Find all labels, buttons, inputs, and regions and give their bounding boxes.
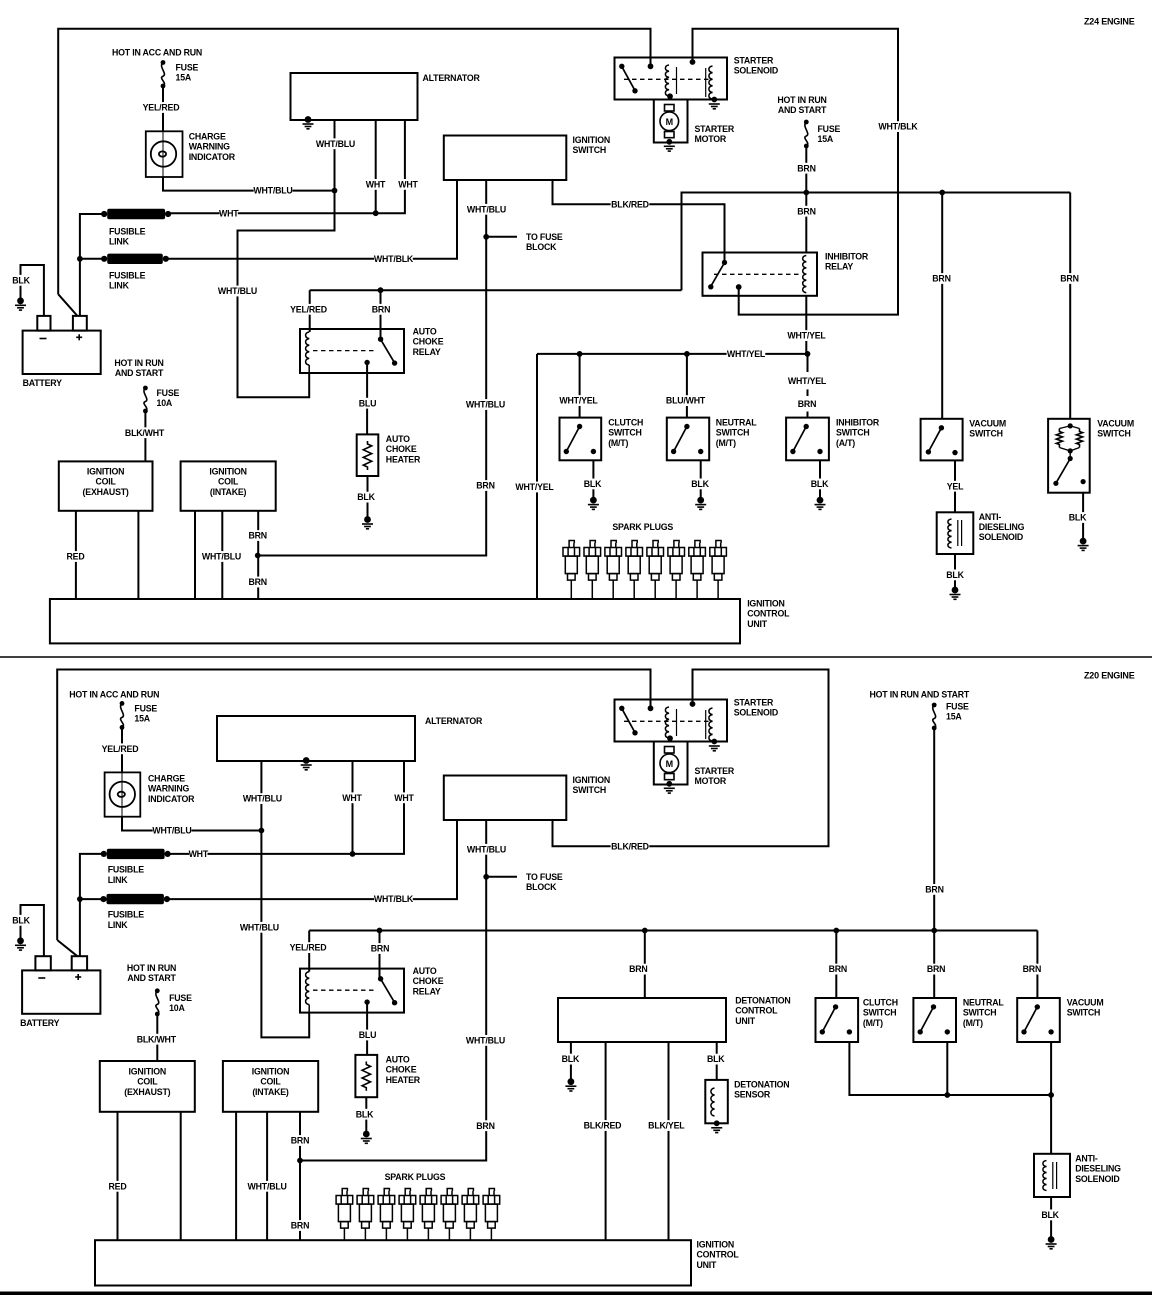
wire BLK anti-dieseling to ground Z20 bbox=[1050, 1197, 1052, 1240]
label BLU bbox=[356, 398, 380, 409]
vacuum switch 2 resistors bbox=[1056, 429, 1062, 448]
solenoid hold-in coil bbox=[709, 66, 713, 99]
pin detonation sensor ground bbox=[714, 1120, 720, 1126]
svg-text:Z24 ENGINE: Z24 ENGINE bbox=[1084, 17, 1135, 27]
wire coil intake pin 1 to ICU Z20 bbox=[235, 1112, 237, 1240]
wire neutral switch output Z20 bbox=[946, 1042, 948, 1095]
battery Z20 bbox=[22, 956, 100, 1014]
anti-dieseling core lines bbox=[957, 520, 959, 546]
wire stub to fuse block bbox=[486, 236, 517, 238]
svg-text:WHT: WHT bbox=[342, 793, 362, 803]
ground solenoid coil bbox=[709, 104, 720, 109]
label BLK bbox=[558, 1054, 582, 1065]
spark plug Z20 7 bbox=[462, 1189, 479, 1241]
label WHT bbox=[394, 792, 414, 803]
svg-text:BLK: BLK bbox=[584, 479, 602, 489]
spark plug Z20 2 bbox=[357, 1189, 374, 1241]
ignition switch box bbox=[444, 136, 567, 181]
spark plug 1 bbox=[563, 541, 580, 600]
svg-text:BRN: BRN bbox=[1060, 274, 1078, 284]
svg-text:BLK: BLK bbox=[12, 915, 30, 925]
starter motor frame Z20 bbox=[654, 742, 688, 785]
svg-text:BLU: BLU bbox=[359, 1030, 376, 1040]
svg-text:WHT/YEL: WHT/YEL bbox=[788, 376, 827, 386]
svg-text:RED: RED bbox=[109, 1181, 127, 1191]
label BLK/WHT bbox=[137, 1034, 177, 1045]
ground detonation sensor bbox=[711, 1128, 722, 1133]
spark plug 7 bbox=[689, 541, 706, 600]
svg-text:BLK: BLK bbox=[946, 570, 964, 580]
svg-text:WHT/BLK: WHT/BLK bbox=[878, 122, 918, 132]
wire fuse to indicator bbox=[162, 86, 164, 131]
fuse F6 10A bbox=[155, 988, 160, 1016]
wire WHT alternator pin 2 Z20 bbox=[352, 761, 354, 854]
svg-text:WHT: WHT bbox=[366, 180, 386, 190]
ground vacuum switch 2 bbox=[1078, 538, 1089, 551]
svg-text:WHT/BLU: WHT/BLU bbox=[253, 186, 292, 196]
wire diagonal to battery + terminal bbox=[58, 294, 77, 316]
solenoid core line Z20 bbox=[676, 709, 678, 736]
label BLK bbox=[1038, 1210, 1062, 1221]
wire stub to fuse block Z20 bbox=[486, 876, 517, 878]
fusible link 1 bbox=[101, 209, 171, 219]
svg-text:STARTERSOLENOID: STARTERSOLENOID bbox=[734, 56, 778, 76]
wire BLK detonation unit to ground bbox=[570, 1042, 572, 1082]
label YEL/RED bbox=[289, 942, 328, 953]
wire WHT/BLK fusible link 2 to ignition switch Z20 bbox=[167, 820, 457, 899]
wire fusible link 1 to battery + Z20 bbox=[80, 854, 104, 956]
svg-text:BRN: BRN bbox=[798, 399, 816, 409]
vacuum switch 2 contacts bbox=[1053, 423, 1085, 486]
label BLK bbox=[353, 1109, 377, 1120]
wire BRN to inhibitor switch bbox=[807, 412, 809, 418]
junction BRN fuse bbox=[803, 190, 809, 196]
wire WHT/BLU coil intake to ICU bbox=[221, 511, 223, 599]
junction BRN auto choke relay bbox=[378, 287, 384, 293]
label BRN bbox=[626, 964, 650, 975]
spark plug 3 bbox=[605, 541, 622, 600]
wire BLK inhibitor switch to ground bbox=[819, 460, 821, 500]
svg-text:YEL: YEL bbox=[947, 481, 964, 491]
label BLK/RED bbox=[583, 1120, 622, 1131]
junction to fuse block Z20 bbox=[483, 874, 489, 880]
svg-text:BLK: BLK bbox=[707, 1054, 725, 1064]
wire YEL/RED bus to auto choke relay coil Z20 bbox=[308, 931, 310, 972]
anti-dieseling core lines Z20 bbox=[1052, 1162, 1054, 1189]
ground alternator case Z20 bbox=[301, 757, 312, 770]
label RED bbox=[64, 551, 88, 562]
svg-text:HOT IN RUNAND START: HOT IN RUNAND START bbox=[127, 963, 177, 983]
junction WHT/BLU Z20 bbox=[259, 828, 265, 834]
fuse F3 10A bbox=[143, 386, 148, 414]
wire BLK anti-dieseling to ground bbox=[954, 554, 956, 590]
junction BRN auto choke relay Z20 bbox=[377, 928, 383, 934]
label BLK/RED bbox=[611, 841, 650, 852]
svg-text:BRN: BRN bbox=[797, 206, 815, 216]
wire switch outputs to anti-dieseling solenoid bbox=[849, 1042, 1051, 1154]
auto choke relay box Z20 bbox=[300, 969, 404, 1013]
svg-text:WHT/BLU: WHT/BLU bbox=[316, 139, 355, 149]
detonation sensor box bbox=[705, 1080, 728, 1123]
ground alternator case bbox=[303, 116, 314, 129]
vacuum switch 1 contacts bbox=[926, 425, 958, 455]
wire YEL/RED bus to auto choke relay coil bbox=[309, 290, 311, 332]
svg-text:VACUUMSWITCH: VACUUMSWITCH bbox=[1067, 998, 1104, 1018]
label BRN bbox=[924, 964, 948, 975]
wire coil exhaust pin 2 to ICU bbox=[137, 511, 139, 599]
wire BRN bus to clutch switch Z20 bbox=[835, 931, 837, 999]
wire BRN fuse to bus Z20 bbox=[933, 728, 935, 931]
svg-text:BLK/WHT: BLK/WHT bbox=[137, 1034, 177, 1044]
svg-text:BLK: BLK bbox=[811, 479, 829, 489]
dashed actuator link auto choke relay Z20 bbox=[313, 989, 376, 991]
label WHT bbox=[342, 792, 362, 803]
svg-text:HOT IN RUNAND START: HOT IN RUNAND START bbox=[114, 358, 164, 378]
svg-text:HOT IN RUNAND START: HOT IN RUNAND START bbox=[777, 95, 827, 115]
spark plug 6 bbox=[668, 541, 685, 600]
auto choke heater box Z20 bbox=[355, 1055, 377, 1097]
wire BLK battery - to ground bbox=[21, 265, 44, 316]
wire WHT/BLU alternator to auto choke relay coil bbox=[238, 120, 335, 397]
svg-text:YEL/RED: YEL/RED bbox=[143, 103, 180, 113]
svg-text:BRN: BRN bbox=[372, 304, 390, 314]
wire WHT/YEL bus bbox=[537, 353, 808, 355]
wire coil intake pin 1 to ICU bbox=[194, 511, 196, 599]
label BRN bbox=[368, 943, 392, 954]
vacuum switch contacts Z20 bbox=[1021, 1004, 1054, 1034]
wire fuse to indicator Z20 bbox=[121, 727, 123, 772]
svg-text:HOT IN ACC AND RUN: HOT IN ACC AND RUN bbox=[112, 48, 202, 58]
wire BLK vacuum switch 2 to ground bbox=[1082, 493, 1084, 541]
wire vacuum switch output Z20 bbox=[1050, 1042, 1052, 1095]
wire BLK neutral switch to ground bbox=[700, 460, 702, 500]
wire WHT/BLU coil intake to ICU Z20 bbox=[266, 1112, 268, 1240]
svg-text:BRN: BRN bbox=[925, 885, 943, 895]
svg-text:BRN: BRN bbox=[797, 163, 815, 173]
svg-text:WHT/BLK: WHT/BLK bbox=[374, 254, 414, 264]
starter motor M circle Z20 bbox=[660, 747, 679, 780]
pin solenoid to motor bbox=[667, 93, 673, 99]
svg-text:BLK: BLK bbox=[357, 492, 375, 502]
wire BRN bus to detonation control unit bbox=[644, 931, 646, 999]
wire battery+ to starter solenoid feed Z20 bbox=[57, 670, 650, 941]
junction switch outputs 2 bbox=[1048, 1092, 1054, 1098]
junction switch outputs 1 bbox=[944, 1092, 950, 1098]
label BLK bbox=[10, 275, 32, 286]
spark plug Z20 4 bbox=[399, 1189, 416, 1241]
svg-text:BLK/YEL: BLK/YEL bbox=[648, 1121, 685, 1131]
wire BLK heater to ground Z20 bbox=[365, 1097, 367, 1134]
wire WHT/BLK starter solenoid to inhibitor relay bbox=[693, 29, 899, 315]
detonation sensor coil bbox=[711, 1088, 715, 1116]
clutch switch box Z20 bbox=[816, 998, 859, 1042]
label BRN bbox=[1058, 273, 1082, 284]
wire WHT alternator pin 3 to fusible link bbox=[168, 120, 405, 213]
wire BLU/WHT to neutral switch bbox=[686, 354, 688, 418]
solenoid core line 2 bbox=[705, 68, 707, 97]
inhibitor relay coil bbox=[803, 256, 807, 293]
svg-text:WHT/BLU: WHT/BLU bbox=[202, 552, 241, 562]
svg-text:WHT/YEL: WHT/YEL bbox=[727, 349, 766, 359]
dashed actuator link solenoid Z20 bbox=[624, 720, 710, 722]
spark plug Z20 3 bbox=[378, 1189, 395, 1241]
wire BRN to vacuum switch 1 bbox=[941, 193, 943, 419]
label BRN bbox=[1020, 964, 1044, 975]
label BRN bbox=[288, 1135, 312, 1146]
svg-text:STARTERSOLENOID: STARTERSOLENOID bbox=[734, 698, 778, 718]
anti-dieseling coil Z20 bbox=[1043, 1161, 1047, 1191]
wire BLK/YEL detonation unit to ICU bbox=[668, 1042, 670, 1240]
ignition control unit box bbox=[50, 599, 740, 643]
starter motor frame bbox=[654, 100, 688, 143]
spark plug Z20 8 bbox=[483, 1189, 500, 1241]
solenoid switch contacts Z20 bbox=[619, 706, 638, 736]
spark plug 8 bbox=[710, 541, 727, 600]
vacuum switch 1 box bbox=[921, 419, 963, 461]
svg-text:BLK: BLK bbox=[12, 275, 30, 285]
svg-text:ALTERNATOR: ALTERNATOR bbox=[423, 73, 481, 83]
svg-text:WHT/BLK: WHT/BLK bbox=[374, 894, 414, 904]
svg-text:WHT/BLU: WHT/BLU bbox=[466, 400, 505, 410]
label WHT bbox=[366, 179, 386, 190]
ignition coil intake box Z20 bbox=[223, 1061, 318, 1112]
ignition switch box Z20 bbox=[444, 776, 567, 821]
svg-text:BLK: BLK bbox=[1041, 1210, 1059, 1220]
pin solenoid coil feed Z20 bbox=[690, 701, 696, 707]
label BLK bbox=[581, 479, 605, 490]
alternator box Z20 bbox=[217, 716, 415, 761]
svg-text:WHT/BLU: WHT/BLU bbox=[243, 794, 282, 804]
label WHT/YEL bbox=[787, 330, 826, 341]
svg-text:Z20 ENGINE: Z20 ENGINE bbox=[1084, 671, 1135, 681]
junction WHT bbox=[373, 210, 379, 216]
junction WHT Z20 bbox=[350, 851, 356, 857]
label WHT/BLK bbox=[878, 121, 918, 132]
separator line bbox=[0, 656, 1152, 658]
wire RED coil exhaust to ICU bbox=[75, 511, 77, 599]
svg-text:BLK: BLK bbox=[562, 1054, 580, 1064]
auto choke heater box bbox=[357, 434, 379, 476]
label BRN bbox=[246, 530, 270, 541]
inhibitor switch contacts bbox=[790, 424, 823, 454]
auto choke heater resistor bbox=[363, 441, 371, 470]
spark plug Z20 1 bbox=[336, 1189, 353, 1241]
label BLK/YEL bbox=[647, 1120, 686, 1131]
svg-text:BRN: BRN bbox=[248, 531, 266, 541]
ground anti-dieseling Z20 bbox=[1046, 1236, 1057, 1249]
starter solenoid box Z20 bbox=[615, 700, 728, 742]
label YEL/RED bbox=[289, 304, 328, 315]
label BRN bbox=[795, 206, 819, 217]
anti-dieseling solenoid box bbox=[937, 512, 974, 554]
label WHT/YEL bbox=[559, 395, 598, 406]
wire YEL vacuum switch to anti-dieseling solenoid bbox=[954, 460, 956, 512]
svg-text:YEL/RED: YEL/RED bbox=[102, 744, 139, 754]
auto choke relay coil bbox=[306, 332, 310, 365]
label WHT bbox=[219, 208, 239, 219]
neutral switch box bbox=[667, 418, 709, 461]
label BLK bbox=[943, 570, 967, 581]
label BLK/RED bbox=[611, 199, 650, 210]
svg-text:IGNITIONSWITCH: IGNITIONSWITCH bbox=[573, 135, 611, 155]
junction neutral switch bbox=[684, 351, 690, 357]
clutch switch contacts Z20 bbox=[820, 1004, 853, 1034]
dashed actuator link inhibitor relay bbox=[714, 273, 800, 275]
svg-text:WHT: WHT bbox=[398, 180, 418, 190]
ground inhibitor switch bbox=[815, 497, 826, 510]
auto choke heater resistor Z20 bbox=[362, 1062, 370, 1091]
vacuum switch 2 links bbox=[1059, 426, 1079, 429]
ignition control unit box Z20 bbox=[95, 1240, 691, 1285]
wire fusible link 1 to battery + bbox=[80, 214, 104, 316]
junction BRN clutch switch Z20 bbox=[833, 928, 839, 934]
label WHT bbox=[398, 179, 418, 190]
junction clutch switch bbox=[577, 351, 583, 357]
junction battery feed Z20 bbox=[77, 896, 83, 902]
label BRN bbox=[795, 399, 819, 410]
label WHT/YEL bbox=[788, 375, 827, 386]
ground starter motor Z20 bbox=[664, 788, 675, 793]
wire BLU relay to auto choke heater Z20 bbox=[366, 1002, 368, 1055]
bottom border line bbox=[0, 1292, 1152, 1295]
wire battery+ to starter solenoid feed bbox=[58, 29, 650, 294]
svg-text:WHT/YEL: WHT/YEL bbox=[787, 331, 826, 341]
wire BLK battery - to ground Z20 bbox=[21, 905, 44, 956]
svg-text:BRN: BRN bbox=[927, 964, 945, 974]
pin solenoid switch feed bbox=[648, 63, 654, 69]
wire WHT/BLU indicator to alternator node bbox=[163, 177, 335, 191]
svg-text:VACUUMSWITCH: VACUUMSWITCH bbox=[969, 419, 1006, 439]
wire BLK detonation unit to sensor bbox=[716, 1042, 718, 1080]
label BLK bbox=[354, 492, 378, 503]
wire ignition switch pin1 down bbox=[456, 180, 458, 259]
svg-text:BRN: BRN bbox=[1023, 964, 1041, 974]
wire BRN coil intake to ICU Z20 bbox=[299, 1112, 301, 1240]
vacuum switch box Z20 bbox=[1017, 998, 1060, 1042]
pin solenoid coil feed bbox=[690, 59, 696, 65]
svg-text:WHT: WHT bbox=[219, 208, 239, 218]
wire WHT/YEL relay coil to switch bus bbox=[805, 296, 807, 354]
solenoid core line 2 Z20 bbox=[705, 710, 707, 739]
pin solenoid switch feed Z20 bbox=[648, 705, 654, 711]
pin solenoid to motor Z20 bbox=[667, 735, 673, 741]
svg-text:BRN: BRN bbox=[829, 964, 847, 974]
ground auto choke heater bbox=[362, 516, 373, 529]
charge warning indicator Z20 bbox=[105, 772, 141, 816]
label BLK bbox=[10, 915, 32, 926]
label WHT/BLU bbox=[202, 551, 241, 562]
label BRN bbox=[246, 577, 270, 588]
solenoid hold-in coil Z20 bbox=[709, 708, 713, 741]
svg-text:BLK: BLK bbox=[691, 479, 709, 489]
fusible link 1 Z20 bbox=[101, 849, 171, 859]
ground battery bbox=[15, 297, 26, 310]
label BRN bbox=[369, 304, 393, 315]
wire BLK/RED starter solenoid to ignition switch Z20 bbox=[553, 670, 829, 847]
fuse F1 15A bbox=[161, 60, 166, 88]
svg-text:BLK/RED: BLK/RED bbox=[584, 1121, 622, 1131]
svg-text:BLK: BLK bbox=[1069, 513, 1087, 523]
ground neutral switch bbox=[695, 497, 706, 510]
label BRN bbox=[474, 1120, 498, 1131]
junction WHT/BLU bbox=[332, 188, 338, 194]
svg-text:WHT/BLU: WHT/BLU bbox=[240, 922, 279, 932]
label BRN bbox=[288, 1220, 312, 1231]
svg-text:WHT/BLU: WHT/BLU bbox=[467, 204, 506, 214]
vacuum switch 2 box bbox=[1048, 419, 1090, 493]
ignition coil exhaust box bbox=[59, 461, 153, 510]
svg-text:ALTERNATOR: ALTERNATOR bbox=[425, 716, 483, 726]
wire BLK heater to ground bbox=[367, 476, 369, 520]
svg-text:VACUUMSWITCH: VACUUMSWITCH bbox=[1097, 419, 1134, 439]
label RED bbox=[106, 1181, 130, 1192]
pin solenoid coil ground bbox=[711, 97, 717, 103]
auto choke relay contacts Z20 bbox=[364, 976, 397, 1005]
wire relay coil bottom stub Z20 bbox=[308, 1005, 310, 1013]
anti-dieseling coil bbox=[948, 519, 952, 548]
label WHT/BLU bbox=[240, 922, 279, 933]
neutral switch contacts Z20 bbox=[918, 1004, 951, 1034]
inhibitor switch box bbox=[786, 418, 829, 461]
fuse F5 15A Z20 bbox=[932, 703, 937, 731]
svg-text:BLK/WHT: BLK/WHT bbox=[125, 428, 165, 438]
wire WHT/YEL down to ignition control unit bbox=[536, 354, 538, 599]
label WHT/BLU bbox=[467, 204, 506, 215]
spark plug Z20 5 bbox=[420, 1189, 437, 1241]
wire BRN bus to vacuum switch Z20 bbox=[1036, 931, 1038, 999]
wire BRN fuse to bus bbox=[805, 146, 807, 193]
label WHT/BLU bbox=[253, 185, 292, 196]
label BRN bbox=[923, 884, 947, 895]
pin motor ground bbox=[666, 139, 672, 145]
svg-text:BRN: BRN bbox=[932, 274, 950, 284]
wire BLK/RED ignition switch to inhibitor relay bbox=[553, 180, 725, 263]
wire BLK/WHT fuse to ignition coil bbox=[144, 411, 146, 461]
fusible link 2 Z20 bbox=[100, 894, 170, 904]
label BRN bbox=[826, 964, 850, 975]
label WHT/YEL bbox=[515, 482, 554, 493]
svg-text:SPARK PLUGS: SPARK PLUGS bbox=[612, 522, 673, 532]
label BRN bbox=[474, 480, 498, 491]
pin solenoid coil ground Z20 bbox=[711, 739, 717, 745]
wire diagonal to battery + terminal Z20 bbox=[57, 940, 77, 956]
wire BLU relay to auto choke heater bbox=[366, 363, 368, 435]
svg-text:WHT: WHT bbox=[189, 849, 209, 859]
ground anti-dieseling bbox=[950, 587, 961, 600]
svg-text:BLK/RED: BLK/RED bbox=[611, 199, 649, 209]
label WHT/BLU bbox=[467, 844, 506, 855]
wire WHT/YEL to inhibitor switch upper bbox=[807, 354, 809, 372]
label YEL/RED bbox=[101, 743, 140, 754]
solenoid pull-in coil Z20 bbox=[665, 707, 669, 738]
spark plug 2 bbox=[584, 541, 601, 600]
wire WHT/BLU indicator to alternator node Z20 bbox=[122, 817, 261, 831]
ignition coil exhaust box Z20 bbox=[100, 1061, 195, 1112]
wire WHT/YEL to clutch switch bbox=[579, 354, 581, 418]
ignition coil intake box bbox=[181, 461, 276, 510]
svg-text:HOT IN ACC AND RUN: HOT IN ACC AND RUN bbox=[69, 690, 159, 700]
label BLK bbox=[808, 479, 832, 490]
wire fusible link 2 left stub Z20 bbox=[80, 898, 104, 900]
svg-text:WHT: WHT bbox=[394, 793, 414, 803]
label BLU/WHT bbox=[666, 395, 706, 406]
junction battery feed bbox=[77, 256, 83, 262]
junction BRN Z20 bbox=[297, 1158, 303, 1164]
svg-text:BRN: BRN bbox=[291, 1136, 309, 1146]
dashed actuator link auto choke relay bbox=[313, 350, 376, 352]
solenoid pull-in coil bbox=[665, 65, 669, 96]
svg-text:WHT/YEL: WHT/YEL bbox=[515, 482, 554, 492]
